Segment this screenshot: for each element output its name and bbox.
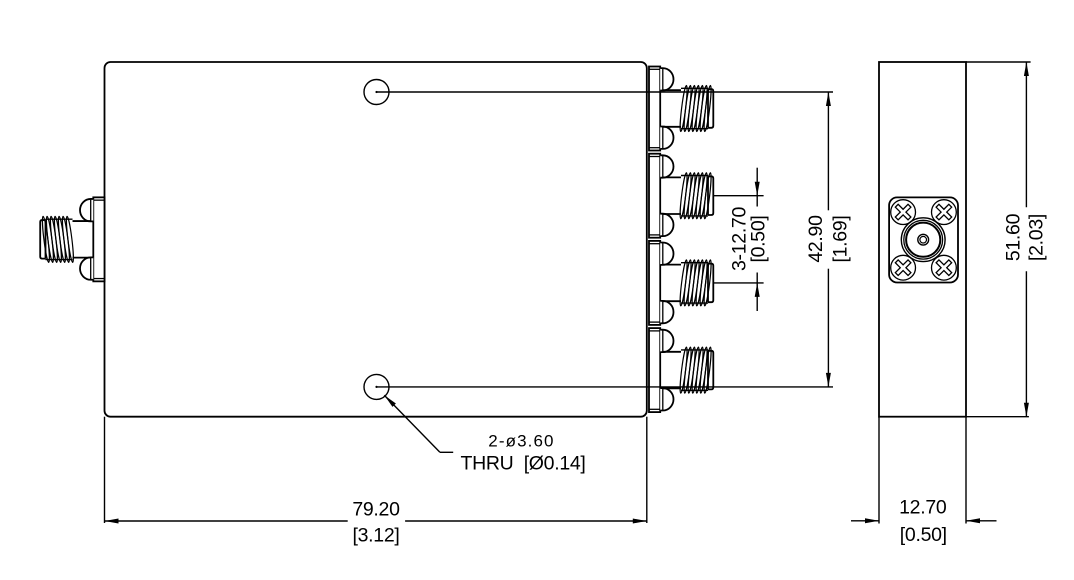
SMA output connector J4 (right) xyxy=(649,241,713,325)
dimension 42.90 lines xyxy=(377,92,834,387)
flange screw S3 xyxy=(890,255,915,280)
svg-text:[0.50]: [0.50] xyxy=(900,524,947,546)
svg-text:[1.69]: [1.69] xyxy=(829,216,851,263)
hole callout leader xyxy=(384,395,453,452)
mounting hole bottom xyxy=(364,374,389,399)
dimension 51.60 lines xyxy=(966,62,1031,417)
flange screw S2 xyxy=(931,199,956,224)
svg-text:79.20: 79.20 xyxy=(352,499,400,521)
coax connector rings xyxy=(901,218,945,262)
dimension 79.20 lines xyxy=(105,417,647,524)
dimension 12.70 lines xyxy=(851,417,997,524)
svg-text:THRU [Ø0.14]: THRU [Ø0.14] xyxy=(461,452,586,474)
flange screw S4 xyxy=(931,255,956,280)
flange screw S1 xyxy=(890,199,915,224)
side view body xyxy=(879,62,966,417)
svg-text:[2.03]: [2.03] xyxy=(1026,214,1048,261)
svg-text:[3.12]: [3.12] xyxy=(353,525,400,547)
mounting hole top xyxy=(364,80,389,105)
svg-text:2-ø3.60: 2-ø3.60 xyxy=(488,431,554,450)
SMA output connector J2 (right) xyxy=(649,67,713,151)
main body top view xyxy=(105,62,647,417)
svg-text:12.70: 12.70 xyxy=(899,497,947,519)
svg-text:[0.50]: [0.50] xyxy=(747,216,769,263)
svg-text:42.90: 42.90 xyxy=(805,215,827,263)
svg-text:51.60: 51.60 xyxy=(1003,213,1025,261)
dimension 3-12.70 lines xyxy=(713,168,763,311)
SMA output connector J5 (right) xyxy=(649,328,713,412)
SMA input connector J1 (left) xyxy=(40,197,104,281)
side view flange xyxy=(889,197,958,282)
SMA output connector J3 (right) xyxy=(649,154,713,238)
